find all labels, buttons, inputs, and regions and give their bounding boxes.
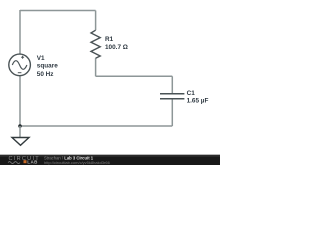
svg-text:C1: C1 [187, 90, 196, 97]
svg-text:1.65 µF: 1.65 µF [187, 97, 209, 104]
svg-text:http://circuitlab.com/c/yv5k8h: http://circuitlab.com/c/yv5k8hakd3r66 [44, 160, 111, 165]
svg-text:square: square [37, 63, 58, 70]
node ground junction [18, 124, 22, 128]
svg-text:LAB: LAB [27, 159, 38, 164]
ground [12, 138, 29, 146]
logo wave [8, 162, 20, 164]
capacitor C1 [160, 94, 184, 99]
wire middle rail [96, 75, 173, 77]
svg-text:V1: V1 [37, 55, 45, 62]
logo LAB square [24, 160, 27, 163]
svg-text:R1: R1 [105, 36, 114, 43]
wire left rail [19, 10, 21, 54]
wire resistor bottom lead [95, 58, 97, 76]
ground lead [19, 126, 21, 138]
resistor R1 [91, 30, 100, 58]
wire capacitor bottom lead [171, 99, 173, 126]
footer bar [0, 155, 220, 165]
wire top rail [20, 10, 96, 12]
voltage source V1 [9, 54, 31, 76]
wire capacitor top lead [171, 76, 173, 93]
svg-text:100.7 Ω: 100.7 Ω [105, 44, 128, 51]
wire bottom rail [20, 125, 172, 127]
wire resistor top lead [95, 11, 97, 31]
svg-text:50 Hz: 50 Hz [37, 71, 54, 78]
wire source bottom lead [19, 76, 21, 126]
